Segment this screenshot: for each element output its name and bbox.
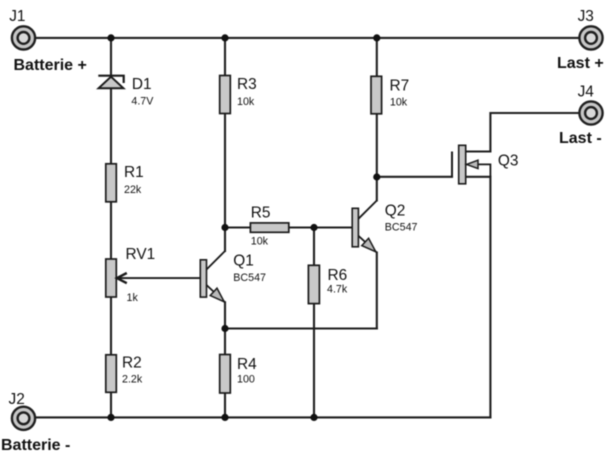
junction node top rail / R7: [373, 34, 380, 41]
svg-text:J2: J2: [9, 391, 25, 408]
terminal J4: [579, 101, 602, 124]
svg-text:10k: 10k: [251, 235, 269, 247]
potentiometer RV1: [106, 259, 201, 297]
junction node bottom rail / R2: [107, 414, 114, 421]
svg-text:Last +: Last +: [557, 55, 604, 72]
svg-text:Batterie +: Batterie +: [14, 57, 87, 74]
wire Q2 emitter down: [376, 253, 378, 329]
svg-text:2.2k: 2.2k: [122, 374, 143, 386]
resistor R1: [106, 164, 117, 202]
transistor Q1: [200, 251, 225, 302]
svg-text:BC547: BC547: [233, 272, 266, 284]
svg-text:R5: R5: [251, 205, 271, 222]
svg-text:R4: R4: [237, 356, 257, 373]
wire node R5 base Q2: [225, 226, 352, 228]
svg-text:10k: 10k: [390, 97, 408, 109]
svg-text:R3: R3: [237, 76, 257, 93]
junction node Q1 emitter / R4: [221, 325, 228, 332]
wire Q3 source to bottom rail: [466, 177, 491, 418]
svg-text:Last -: Last -: [559, 130, 602, 147]
resistor R5: [250, 223, 288, 232]
wire bottom rail J2 to Q3 source: [24, 416, 490, 418]
svg-text:RV1: RV1: [126, 246, 156, 263]
svg-text:Q2: Q2: [385, 203, 406, 220]
transistor Q2: [352, 201, 377, 253]
svg-text:R1: R1: [124, 164, 144, 181]
svg-text:J4: J4: [578, 84, 595, 101]
wire Q3 drain to J4: [466, 113, 591, 152]
svg-text:D1: D1: [132, 76, 152, 93]
svg-text:10k: 10k: [237, 96, 255, 108]
svg-text:R2: R2: [122, 355, 142, 372]
junction node top rail / R3: [221, 34, 228, 41]
svg-text:4.7k: 4.7k: [327, 284, 348, 296]
resistor R3: [220, 76, 231, 114]
resistor R4: [220, 355, 231, 394]
svg-text:J1: J1: [9, 8, 25, 25]
svg-text:Q3: Q3: [498, 153, 519, 170]
svg-text:100: 100: [237, 374, 255, 386]
svg-text:22k: 22k: [124, 184, 142, 196]
wire top rail J1 to J3: [24, 37, 591, 39]
mosfet Q3: [452, 145, 490, 184]
junction node bottom rail / R6: [310, 414, 317, 421]
wire Q1 emitter down through R4: [224, 302, 226, 417]
resistor R6: [308, 265, 319, 303]
junction node top rail / D1: [107, 34, 114, 41]
junction node bottom rail / R4: [221, 414, 228, 421]
svg-text:1k: 1k: [127, 292, 139, 304]
resistor R2: [106, 355, 117, 393]
wire left branch D1/R1/RV1/R2: [110, 38, 112, 418]
terminal J3: [579, 26, 602, 49]
junction node R7 / gate: [373, 173, 380, 180]
svg-text:J3: J3: [578, 8, 594, 25]
svg-text:R7: R7: [390, 78, 410, 95]
wire R6 branch: [313, 228, 315, 418]
junction node R5 left / R3: [221, 224, 228, 231]
terminal J1: [12, 26, 35, 49]
wire gate Q3: [377, 176, 452, 178]
terminal J2: [12, 407, 35, 430]
wire right branch R7 to Q2 collector: [376, 38, 378, 201]
svg-text:BC547: BC547: [385, 222, 418, 234]
wire emitter rail Q1 to Q2: [225, 327, 377, 329]
zener diode D1: [98, 76, 123, 89]
svg-text:R6: R6: [328, 267, 348, 284]
junction node R5 right / R6: [310, 224, 317, 231]
svg-text:Q1: Q1: [233, 253, 254, 270]
wire middle branch R3 to Q1 collector: [224, 38, 226, 251]
svg-text:Batterie -: Batterie -: [1, 437, 70, 454]
resistor R7: [371, 76, 382, 114]
svg-text:4.7V: 4.7V: [131, 96, 154, 108]
